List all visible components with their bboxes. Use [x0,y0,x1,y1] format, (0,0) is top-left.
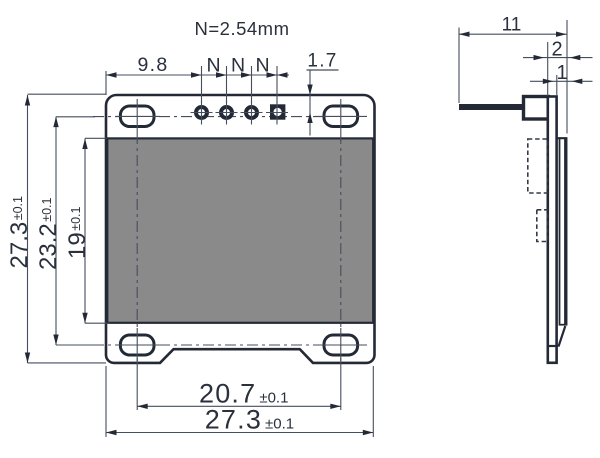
dimension 9.8 / N chain : extension lines [105,71,107,95]
dimension 1 side : line and arrows [530,80,593,82]
dimension 27.3 bottom : line and arrows [106,432,373,434]
dimension 2 side : line and arrows [523,57,593,59]
mounting hole bottom-right [324,335,358,355]
svg-text:N: N [206,54,220,76]
centerline vertical right (through right holes) [340,133,342,328]
FPC fold (side view) [559,326,566,347]
mounting hole bottom-left [120,335,154,355]
dimension 1 side : extension line [556,75,558,96]
svg-text:2: 2 [551,39,562,61]
crosshair hole top-left [115,115,160,117]
pin 2 pad [221,107,232,118]
centerline vertical left (through left holes) [136,133,138,328]
dimension 20.7 bottom : line and arrows [137,405,341,407]
crosshair hole bottom-left [115,344,160,346]
svg-text:23.2±0.1: 23.2±0.1 [35,197,62,270]
crosshair hole top-right [315,115,367,117]
svg-text:27.3±0.1: 27.3±0.1 [205,405,294,435]
display panel (side view) [560,138,567,325]
dimension 27.3 left : line and arrows [27,95,29,363]
dimension 20.7 bottom : extension lines [136,358,138,410]
centerline horizontal bottom (through bottom holes) [93,344,345,346]
PCB outline (front view) [106,95,375,363]
svg-text:9.8: 9.8 [137,54,168,76]
PCB (side view) [548,97,557,363]
dimension 19 left : extension lines [85,137,107,139]
pin 3 pad [246,107,257,118]
svg-text:N=2.54mm: N=2.54mm [195,18,290,39]
dimension 19 left : line and arrows [84,139,86,324]
pin header body (side view) [524,97,549,120]
svg-text:1.7: 1.7 [307,51,337,72]
dimension 11 side : line and arrows [459,33,567,35]
pin crosshair horizontals [191,112,213,114]
mounting hole top-right [324,106,358,127]
hidden component outline A (dashed, side view) [528,139,548,193]
dimension 23.2 left : extension line [56,116,95,118]
dimension 27.3 left : extension lines [28,93,107,95]
pin 4 pad (square) [270,104,285,119]
svg-text:N: N [255,54,269,76]
dimension 9.8 / N chain : dimension line [106,74,289,76]
pin header pin (side view) [459,104,524,110]
centerline horizontal top (through pins and top holes) [93,116,345,118]
mounting hole top-left [120,106,154,127]
svg-text:11: 11 [502,15,522,36]
pin 1 pad [196,107,207,118]
dimension 11 side : extension lines [458,28,460,104]
dimension 23.2 left : line and arrows [55,117,57,345]
hidden component outline B (dashed, side view) [537,210,548,242]
svg-text:N: N [231,54,245,76]
svg-text:19±0.1: 19±0.1 [64,207,91,259]
crosshair hole bottom-right [318,344,367,346]
dimension 27.3 bottom : extension lines [105,366,107,437]
svg-text:1: 1 [556,62,567,84]
dimension 2 side : extension line [547,42,549,96]
display area (gray screen) [107,138,373,322]
svg-text:27.3±0.1: 27.3±0.1 [6,196,33,269]
